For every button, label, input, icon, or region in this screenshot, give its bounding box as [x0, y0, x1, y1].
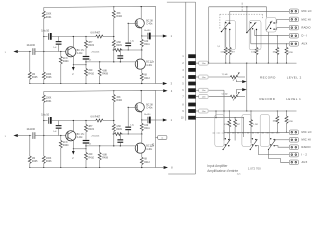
svg-text:LEVEL 1: LEVEL 1	[286, 97, 301, 101]
wire jack1 to S1a	[230, 10, 289, 12]
wire jack2 to S1c	[277, 18, 290, 20]
svg-text:4K7: 4K7	[237, 124, 240, 126]
svg-text:1,5: 1,5	[89, 60, 92, 62]
svg-text:R403: R403	[88, 45, 94, 47]
link box on pin row y90.2	[196, 89, 199, 91]
wire jack2b to S2c	[274, 139, 289, 141]
svg-text:MIC HI: MIC HI	[302, 17, 311, 21]
wire pin10 drop into S2b	[243, 117, 244, 118]
svg-text:10u/R4: 10u/R4	[144, 30, 151, 32]
jack AUX upper	[289, 42, 298, 47]
net arrow output	[163, 35, 167, 38]
svg-text:BC 17x: BC 17x	[77, 50, 85, 52]
pin 2	[188, 61, 196, 65]
jack RADIO upper	[289, 25, 298, 30]
wire jack3 to S1c	[277, 27, 290, 29]
wire node A feed	[44, 36, 48, 38]
resistor R408 4,8K	[99, 61, 100, 62]
link box on pin row y77.0	[196, 76, 199, 78]
jack MIC LO upper	[289, 9, 298, 14]
jack MIC HI lower	[289, 138, 298, 143]
svg-text:BC 08: BC 08	[146, 20, 153, 22]
svg-text:+750u/16: +750u/16	[91, 52, 100, 54]
svg-text:C-40x: C-40x	[146, 24, 153, 26]
svg-text:R410: R410	[88, 73, 94, 75]
resistor R403 4P7 (x86 column)	[85, 36, 86, 37]
svg-text:3,5M: 3,5M	[224, 124, 229, 126]
wire jack1b bus	[224, 131, 289, 133]
svg-text:1,0u: 1,0u	[130, 40, 134, 42]
svg-text:4K7: 4K7	[231, 51, 234, 53]
svg-text:MIC LO: MIC LO	[302, 9, 312, 13]
wire jack4 to S1b	[255, 35, 289, 37]
svg-text:1,0m: 1,0m	[202, 111, 206, 113]
resistor 3,5M above S2a	[229, 110, 230, 111]
svg-text:100K: 100K	[46, 74, 52, 76]
wire pin10 riser and drop to switch	[196, 117, 244, 119]
wire supply rail	[44, 6, 156, 7]
capacitor 100n vertical at x58.6	[58, 37, 60, 42]
svg-text:xx: xx	[161, 138, 163, 140]
svg-text:1,5M: 1,5M	[251, 52, 256, 54]
pin 5	[188, 82, 196, 86]
net arrow 8: channel2 ground rail	[156, 167, 164, 169]
svg-text:100K: 100K	[46, 14, 52, 16]
svg-text:1,0m: 1,0m	[202, 63, 206, 65]
potentiometer 7,5k on pin4 line	[209, 76, 231, 78]
wire Q2 base line	[86, 61, 135, 63]
wire jack5b to S2b/S2c lever	[269, 150, 290, 163]
svg-text:LEVEL 2: LEVEL 2	[287, 76, 302, 80]
switch S2b	[242, 115, 251, 147]
svg-text:RECORD: RECORD	[260, 76, 276, 80]
wire jack3b to S2c	[274, 146, 289, 148]
svg-text:4,6K: 4,6K	[116, 42, 121, 44]
svg-text:R411: R411	[144, 44, 150, 46]
linkage dash-dot lower	[213, 132, 281, 134]
switch S2a	[215, 115, 224, 147]
bus 1 (record level 2) from pin2	[209, 62, 297, 64]
wire pin6 drop	[209, 89, 224, 91]
svg-text:5,6u/10: 5,6u/10	[41, 31, 49, 33]
svg-text:470K: 470K	[288, 52, 293, 54]
pin 10	[188, 116, 196, 120]
svg-text:R404: R404	[63, 61, 69, 63]
svg-text:10u/160: 10u/160	[27, 45, 36, 47]
mechanical linkage dashed	[220, 13, 263, 15]
pin 4	[188, 75, 196, 79]
wire right edge of channel block	[155, 6, 157, 83]
jack MIC LO lower	[289, 130, 298, 135]
svg-text:1-m: 1-m	[237, 174, 241, 176]
resistor 10K (upper group)	[277, 35, 278, 36]
svg-text:D - I: D - I	[302, 34, 308, 38]
resistor R409 4,6K (center column lower)	[112, 40, 115, 47]
pin 6	[188, 88, 196, 92]
resistor 470K (lower group)	[286, 110, 287, 111]
svg-text:4,8K: 4,8K	[102, 70, 107, 72]
link box on pin row y111.0	[196, 110, 199, 112]
svg-text:15K: 15K	[116, 13, 121, 15]
resistor 10K (lower group)	[277, 110, 278, 111]
transistor Q3 BC08 output follower	[135, 19, 144, 28]
svg-text:1.072 700: 1.072 700	[248, 167, 261, 171]
svg-text:AUX: AUX	[302, 160, 308, 164]
capacitor C403 1,0u (feedback to base)	[127, 23, 129, 42]
resistor R405 1M (input shunt)	[29, 52, 31, 73]
link box on pin row y63.1	[196, 62, 199, 64]
resistor 4K7 under S1a	[229, 30, 231, 48]
svg-text:470K: 470K	[288, 121, 293, 123]
capacitor C401 10u/160 input coupling	[32, 48, 34, 55]
wire jack5 to S1b	[251, 43, 289, 45]
svg-text:1,2M: 1,2M	[253, 124, 258, 126]
pin 9	[188, 109, 196, 113]
potentiometer 5,6k on pin7 line	[209, 96, 231, 98]
resistor R402 15K (center column upper)	[113, 6, 114, 7]
resistor 4K7 above S2a	[235, 117, 236, 118]
svg-text:Amplificateur d’entrée: Amplificateur d’entrée	[207, 169, 238, 173]
resistor R407 6K horizontal	[96, 35, 103, 38]
svg-text:1,0m: 1,0m	[202, 77, 206, 79]
svg-text:1,0m: 1,0m	[202, 90, 206, 92]
svg-text:1,0m: 1,0m	[202, 97, 206, 99]
svg-text:R406: R406	[46, 77, 52, 79]
switch S1a	[225, 21, 236, 50]
wire Q1 emitter node	[73, 64, 86, 66]
svg-text:AUX: AUX	[302, 42, 308, 46]
resistor R410 220	[85, 69, 88, 76]
svg-text:R401: R401	[46, 17, 52, 19]
svg-text:R402: R402	[116, 16, 122, 18]
jack D - I upper	[289, 33, 298, 38]
svg-text:R405: R405	[32, 77, 38, 79]
wire ground rail	[30, 83, 156, 85]
resistor R404 10K (Q1 base bias)	[60, 51, 61, 52]
resistor R401 100K (bias upper)	[43, 7, 45, 11]
transistor Q2 BC17x second stage	[135, 59, 145, 69]
svg-text:1u3: 1u3	[53, 47, 56, 49]
pin 1	[188, 54, 196, 58]
svg-text:7,5 kΩ: 7,5 kΩ	[222, 74, 228, 76]
capacitor C402 5,6u electrolytic on node wire	[47, 33, 49, 40]
jack MIC HI upper	[289, 17, 298, 22]
svg-text:4-40x: 4-40x	[146, 65, 153, 67]
jack AUX lower	[289, 160, 298, 165]
resistor R406 100K (bias lower)	[42, 72, 45, 79]
switch S1c	[266, 17, 276, 32]
svg-text:I - 2: I - 2	[302, 153, 308, 157]
net arrow 3: channel1 ground rail	[156, 83, 163, 85]
resistor R411 100 (Q3 emitter)	[141, 35, 142, 36]
svg-text:10 K: 10 K	[63, 58, 68, 60]
pin 8	[188, 103, 196, 107]
svg-text:R412: R412	[144, 78, 150, 80]
svg-text:4P7: 4P7	[88, 42, 93, 44]
net arrow 4: channel2 supply rail	[156, 90, 164, 92]
svg-text:Input Amplifier: Input Amplifier	[207, 164, 228, 168]
svg-text:RADIO: RADIO	[302, 26, 311, 30]
svg-text:RADIO: RADIO	[302, 145, 311, 149]
link box on channel2 edge	[156, 137, 158, 139]
connector outline	[167, 1, 196, 3]
svg-text:R409: R409	[116, 45, 122, 47]
pin 7	[188, 95, 196, 99]
svg-text:3,5M: 3,5M	[220, 51, 225, 53]
svg-text:MIC HI: MIC HI	[302, 138, 311, 142]
svg-text:RECORD: RECORD	[260, 97, 276, 101]
svg-text:6 K R407: 6 K R407	[91, 33, 101, 35]
resistor 3,5M under S1a	[225, 29, 227, 47]
bus 2 (record level 1) from pin9	[209, 110, 297, 112]
resistor R412 68 (Q2 emitter)	[140, 73, 143, 80]
capacitor on trimmer tap	[120, 50, 121, 51]
link box on pin row y96.7	[196, 96, 199, 98]
jack RADIO lower	[289, 145, 298, 150]
wire bus tie vertical	[246, 63, 248, 111]
input terminal arrow	[13, 50, 17, 53]
svg-text:4-40x: 4-40x	[77, 53, 84, 55]
wire bottom return L	[168, 173, 195, 175]
capacitor 750u/16 electrolytic	[83, 56, 90, 57]
svg-text:5,6 kΩ: 5,6 kΩ	[222, 94, 228, 96]
jack I - 2 lower	[289, 152, 298, 157]
resistor 1,5M (upper group)	[256, 30, 258, 48]
wire top feed from connector	[208, 7, 210, 63]
preset trimmer wire to Q2 collector	[113, 49, 114, 50]
wire jack4b to S2b	[256, 146, 289, 155]
switch S1b	[249, 21, 261, 50]
svg-text:MIC LO: MIC LO	[302, 130, 312, 134]
net arrow 2 (emitter return)	[72, 65, 74, 67]
node A junction dots on x43.8 column	[43, 36, 44, 37]
resistor 470K (upper group)	[286, 44, 288, 48]
resistor 1,2M (lower group)	[250, 110, 251, 111]
svg-text:100: 100	[144, 41, 149, 43]
svg-text:5,1: 5,1	[217, 46, 220, 48]
svg-text:R408: R408	[102, 74, 108, 76]
capacitor C404 10u output electrolytic	[142, 35, 147, 37]
svg-text:1M: 1M	[32, 74, 35, 76]
transistor Q1 BC17x	[66, 47, 76, 57]
pin 3	[188, 68, 196, 72]
switch S2c	[260, 115, 269, 147]
